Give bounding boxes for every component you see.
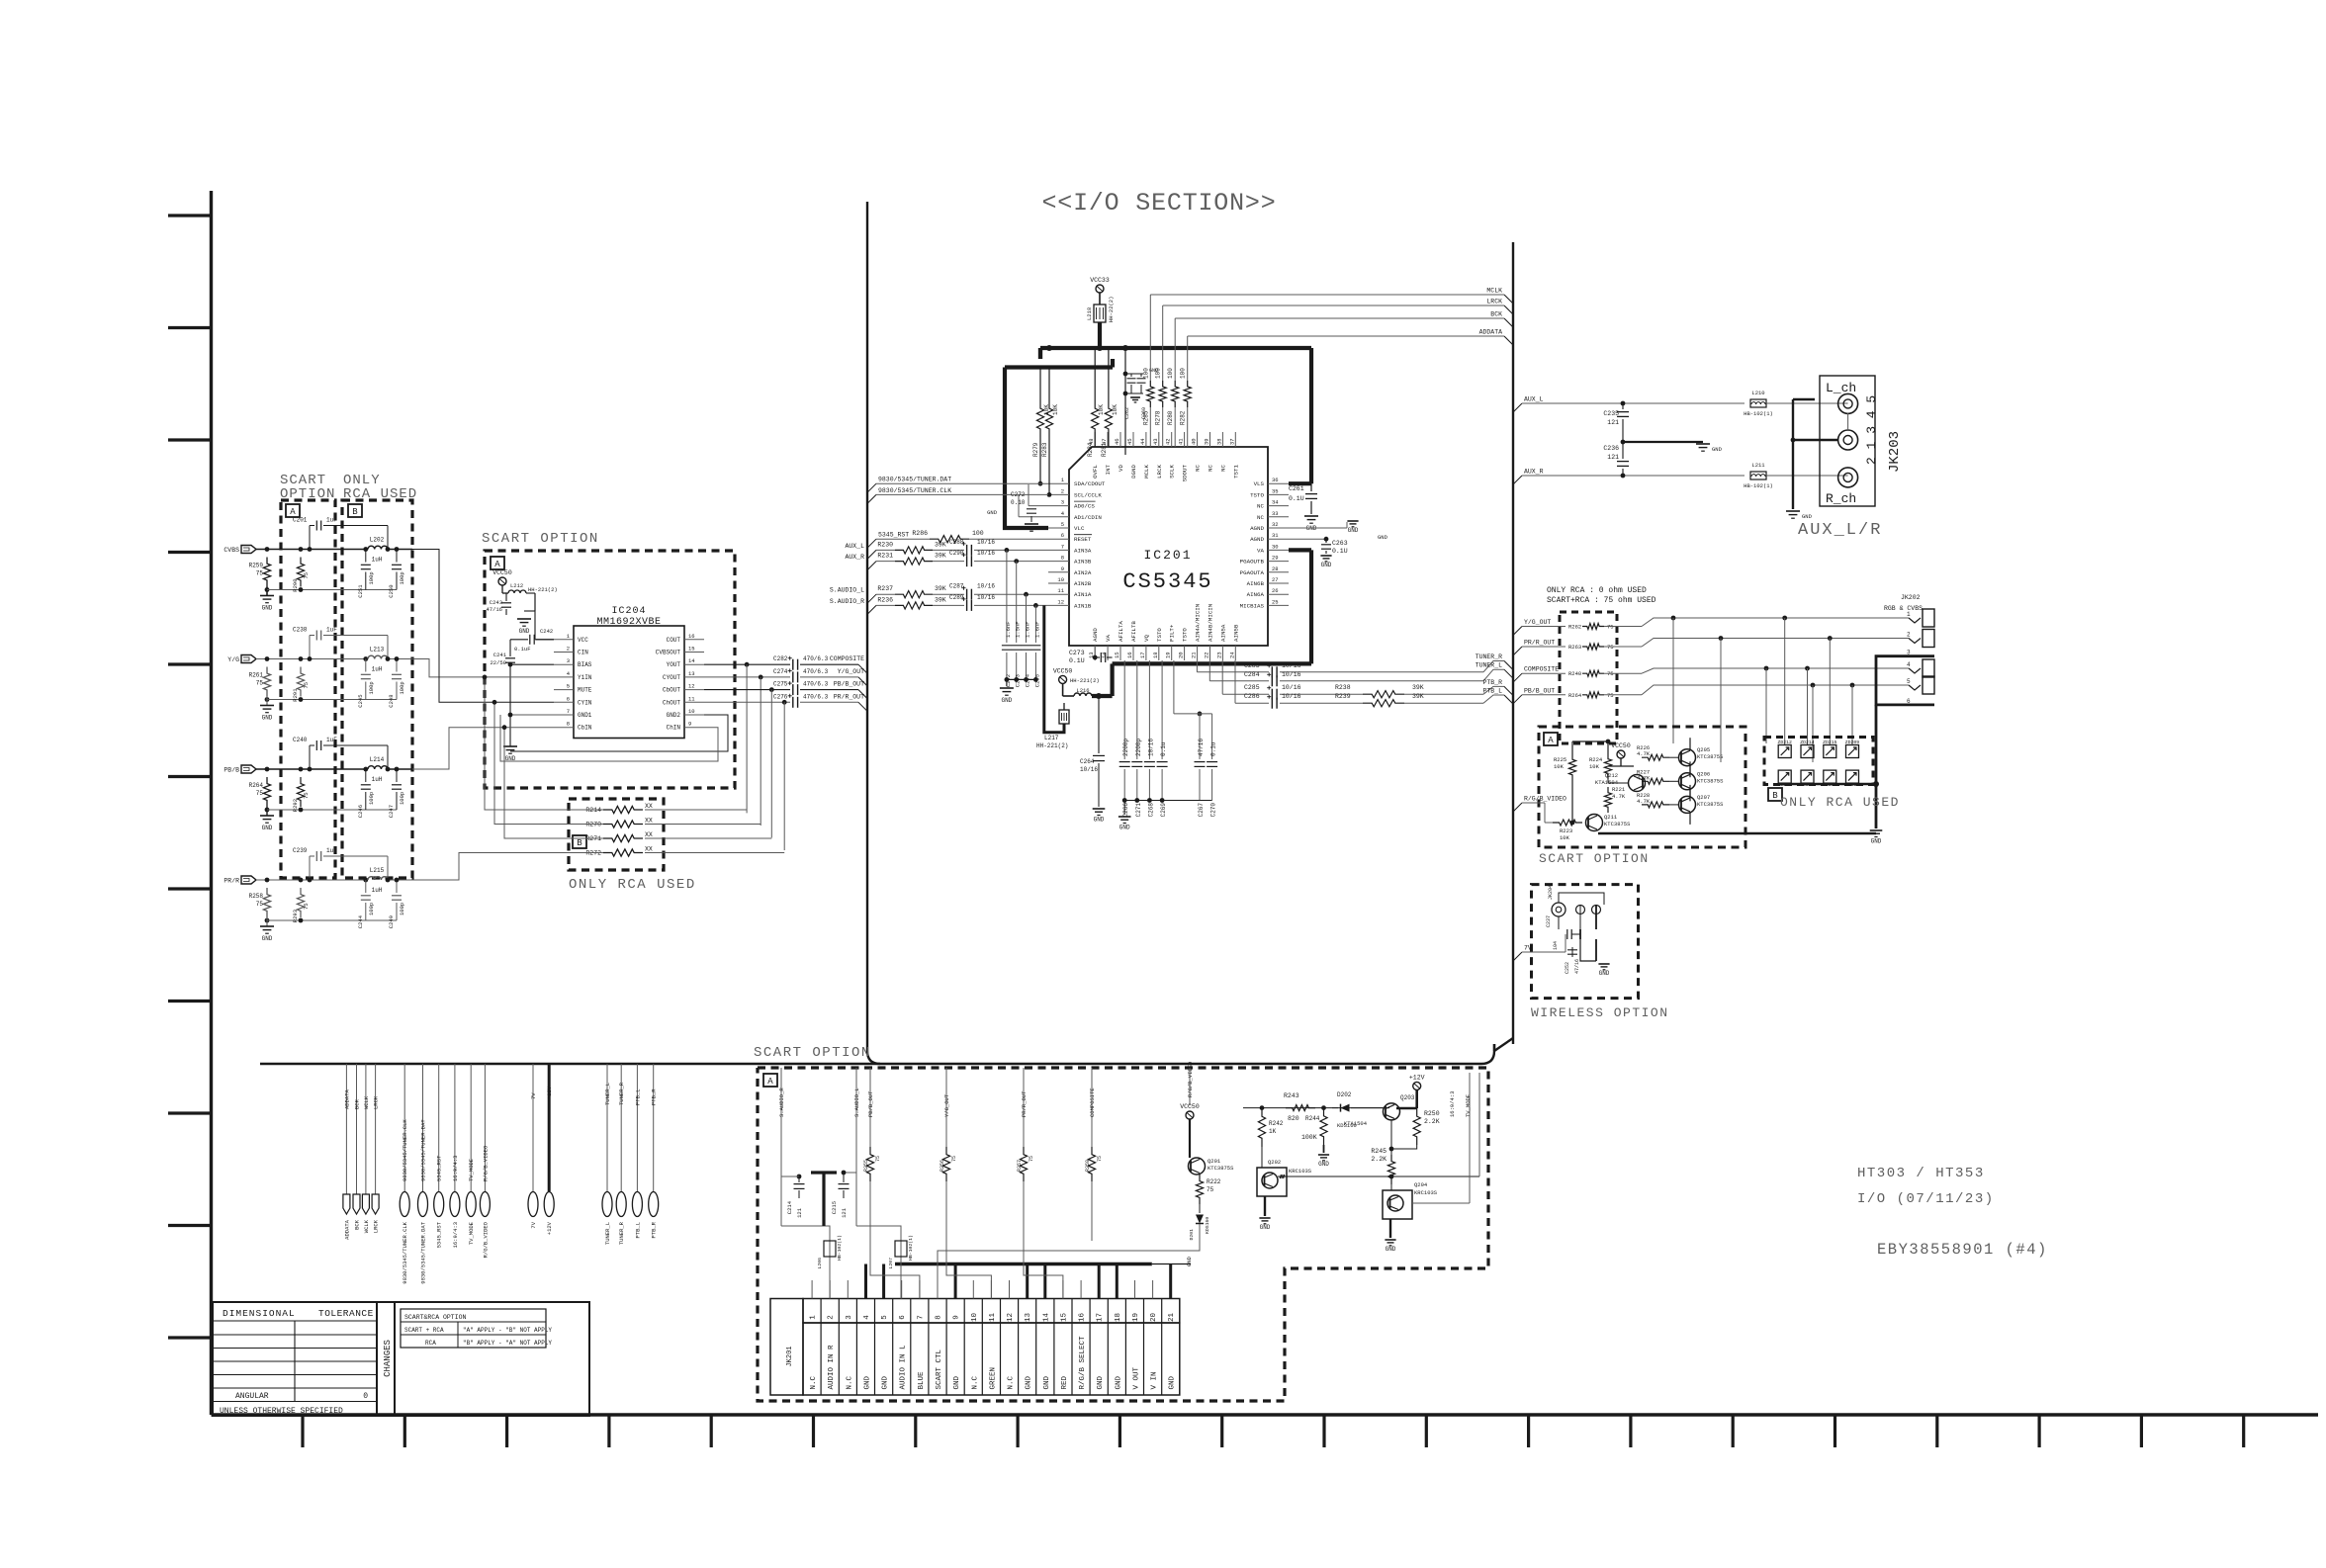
IC201 pin 17 VQ (bottom) xyxy=(1145,646,1147,660)
resistor R237 39K xyxy=(895,591,933,598)
svg-text:R286: R286 xyxy=(912,530,928,537)
svg-text:MCLK: MCLK xyxy=(1143,464,1150,478)
svg-text:10/16: 10/16 xyxy=(1282,684,1301,691)
svg-text:GND: GND xyxy=(864,1375,872,1389)
svg-text:47/16: 47/16 xyxy=(1574,959,1580,974)
pad WCLK xyxy=(365,1064,367,1194)
zener ZD210 xyxy=(1846,770,1859,783)
svg-text:1uF: 1uF xyxy=(326,517,337,524)
ground under R259 xyxy=(260,595,274,597)
svg-text:L215: L215 xyxy=(370,867,385,874)
wire L212 to pin1 xyxy=(534,593,536,640)
box tag A xyxy=(1544,733,1558,745)
wire R/G/B_VIDEO drop (bottom) xyxy=(1189,1068,1191,1105)
svg-text:C235: C235 xyxy=(1603,410,1619,417)
svg-text:121: 121 xyxy=(796,1207,803,1218)
svg-text:7: 7 xyxy=(917,1315,925,1320)
svg-text:PTB_L: PTB_L xyxy=(634,1222,641,1239)
svg-text:R290: R290 xyxy=(292,579,299,592)
capacitor C214 121 xyxy=(797,1175,802,1179)
ground under Q204 xyxy=(1389,1219,1391,1238)
svg-text:16: 16 xyxy=(1079,1313,1087,1323)
transistor Q204 KRC103S digital xyxy=(1383,1190,1412,1219)
connector JK201 table xyxy=(770,1299,803,1396)
svg-text:WCLK: WCLK xyxy=(363,1219,370,1233)
IC201 CS5345 body xyxy=(1069,447,1268,646)
svg-text:GND: GND xyxy=(953,1375,961,1389)
wire JK201 stub pin 1 xyxy=(811,1280,813,1299)
resistor R293 xyxy=(297,888,304,917)
svg-text:GND: GND xyxy=(1026,1375,1033,1389)
svg-text:RED: RED xyxy=(1061,1375,1069,1389)
svg-text:10/16: 10/16 xyxy=(977,550,995,557)
ground JK203 xyxy=(1786,510,1800,512)
wire R279 to pin1 row xyxy=(1038,481,1043,486)
svg-text:16: 16 xyxy=(688,633,695,640)
svg-text:7V: 7V xyxy=(1524,945,1532,952)
svg-text:1uH: 1uH xyxy=(372,887,383,894)
svg-text:39K: 39K xyxy=(1412,684,1424,691)
svg-text:RCA USED: RCA USED xyxy=(343,486,417,502)
svg-text:AUX_L/R: AUX_L/R xyxy=(1798,521,1882,540)
svg-text:10/16: 10/16 xyxy=(1080,766,1098,773)
svg-text:R259: R259 xyxy=(1085,1160,1091,1172)
IC201 pin 30 VA (right) xyxy=(1268,549,1289,551)
svg-text:R258: R258 xyxy=(249,893,264,900)
svg-text:R278: R278 xyxy=(1155,410,1162,425)
IC201 pin 27 AIN6B (right) xyxy=(1268,582,1289,584)
wire Y/G_OUT to JK202 xyxy=(1604,626,1642,628)
svg-text:L212: L212 xyxy=(510,582,523,589)
svg-text:Y/G_OUT: Y/G_OUT xyxy=(1524,619,1551,626)
pad PTB_L xyxy=(636,1064,638,1191)
svg-text:GND: GND xyxy=(519,628,530,635)
svg-text:10K: 10K xyxy=(1589,763,1600,770)
svg-text:R/G/B SELECT: R/G/B SELECT xyxy=(1079,1336,1087,1390)
transistor Q211 KTC3875S xyxy=(1586,815,1603,831)
svg-text:PTB_L: PTB_L xyxy=(634,1089,641,1105)
svg-text:3: 3 xyxy=(1061,499,1064,506)
svg-text:2200p: 2200p xyxy=(1135,739,1142,756)
svg-text:PGAOUTB: PGAOUTB xyxy=(1240,559,1265,566)
svg-text:D202: D202 xyxy=(1337,1091,1352,1098)
svg-text:AUX_R: AUX_R xyxy=(1524,469,1544,476)
svg-text:Q203: Q203 xyxy=(1400,1094,1415,1101)
IC201 pin 46 VD (top) xyxy=(1119,432,1121,447)
svg-text:15: 15 xyxy=(1114,652,1120,658)
svg-text:GND: GND xyxy=(1348,527,1359,534)
box tag A xyxy=(491,557,504,569)
svg-text:36: 36 xyxy=(1272,477,1279,483)
wire JK201 gnd stub pin 17 xyxy=(1098,1264,1101,1299)
wire thick right rail VLS/VA xyxy=(1309,348,1313,483)
IC204 pin 14 YOUT xyxy=(684,663,704,665)
dashed option box B (RCA resistors) xyxy=(569,799,664,870)
svg-text:NC: NC xyxy=(1257,514,1264,521)
svg-text:Q212: Q212 xyxy=(1605,772,1618,779)
svg-text:C293: C293 xyxy=(1015,674,1022,687)
svg-text:C240: C240 xyxy=(293,737,308,743)
svg-text:5: 5 xyxy=(1061,521,1064,528)
svg-text:C292: C292 xyxy=(1005,674,1012,687)
svg-text:L218: L218 xyxy=(1086,307,1093,320)
svg-text:AIN4A/MICIN: AIN4A/MICIN xyxy=(1195,603,1202,642)
capacitor C238 1uF bypass xyxy=(309,636,311,659)
svg-text:JK201: JK201 xyxy=(786,1346,794,1366)
svg-text:0.10: 0.10 xyxy=(1011,499,1026,506)
pad 9830/5345/TUNER.DAT xyxy=(422,1064,424,1191)
svg-text:GND1: GND1 xyxy=(578,712,592,719)
capacitor C236 121 xyxy=(1621,474,1626,479)
capacitor C251 100p xyxy=(365,550,367,563)
svg-text:20: 20 xyxy=(1150,1313,1158,1323)
svg-text:SCL/CCLK: SCL/CCLK xyxy=(1074,491,1102,498)
svg-text:R262: R262 xyxy=(1568,624,1581,631)
svg-text:R264: R264 xyxy=(249,782,264,789)
svg-text:42: 42 xyxy=(1165,438,1172,445)
svg-text:47/16: 47/16 xyxy=(486,606,502,613)
capacitor C271 2200p xyxy=(1136,660,1138,759)
IC201 pin 40 NC (top) xyxy=(1197,432,1199,447)
wire JK202 pin3/pin6 ground xyxy=(1876,656,1934,705)
svg-text:39K: 39K xyxy=(1412,693,1424,700)
svg-text:AGND: AGND xyxy=(1092,628,1099,642)
wire JK201 stub pin 6 xyxy=(901,1280,903,1299)
svg-text:18: 18 xyxy=(1152,652,1159,658)
wire thick plate junction xyxy=(811,1171,837,1174)
svg-text:SCART + RCA: SCART + RCA xyxy=(404,1327,444,1334)
IC204 pin 1 VCC xyxy=(554,639,574,641)
svg-text:GREEN: GREEN xyxy=(989,1367,997,1390)
capacitor C268 10/16 xyxy=(1148,660,1150,759)
resistor R231 39K xyxy=(895,558,933,565)
svg-text:HB-102(1): HB-102(1) xyxy=(1744,410,1773,417)
svg-text:33: 33 xyxy=(1272,510,1279,517)
svg-text:15: 15 xyxy=(688,646,695,653)
wire JK201 gnd stub pin 18 xyxy=(1116,1264,1118,1299)
ground under C243 xyxy=(517,618,531,620)
IC201 pin 18 TSTO (bottom) xyxy=(1158,646,1160,660)
capacitor C249 100p xyxy=(396,880,398,893)
svg-text:R264: R264 xyxy=(1568,692,1582,699)
resistor R239 39K xyxy=(1363,700,1404,707)
resistor R245 2.2K xyxy=(1387,1155,1394,1184)
svg-text:1.6nF: 1.6nF xyxy=(1033,621,1040,638)
wire CVBS row xyxy=(256,549,366,551)
svg-text:10/16: 10/16 xyxy=(977,583,995,590)
IC201 pin 9 AIN2A (left) xyxy=(1048,571,1069,573)
svg-text:PTB_L: PTB_L xyxy=(1482,688,1502,695)
svg-text:75: 75 xyxy=(303,903,310,910)
svg-text:ADDATA: ADDATA xyxy=(343,1219,350,1240)
svg-text:C269: C269 xyxy=(1160,803,1167,818)
resistor R284 10K xyxy=(1094,348,1096,400)
svg-text:C214: C214 xyxy=(786,1200,793,1214)
svg-text:3: 3 xyxy=(567,657,570,664)
IC204 pin 5 MUTE xyxy=(554,689,574,691)
svg-text:100p: 100p xyxy=(368,681,375,694)
wire PR/R_OUT output row xyxy=(704,701,790,703)
resistor R244 100K xyxy=(1320,1108,1327,1145)
svg-text:HB-102(1): HB-102(1) xyxy=(837,1235,843,1261)
svg-text:R231: R231 xyxy=(877,553,893,560)
svg-text:37: 37 xyxy=(1228,438,1235,445)
transistor Q201 KTC3875S xyxy=(1189,1158,1206,1175)
wire PR/R_OUT drop (bottom) xyxy=(1023,1068,1025,1147)
dashed option box B (zeners) xyxy=(1764,738,1873,785)
capacitor C261 0.1U xyxy=(1310,483,1312,491)
IC201 pin 14 VA (bottom) xyxy=(1107,646,1109,660)
svg-text:12: 12 xyxy=(688,683,695,690)
svg-text:16:9/4:3: 16:9/4:3 xyxy=(1449,1091,1456,1117)
wire wireless gnd xyxy=(1580,939,1596,961)
svg-text:C262: C262 xyxy=(1124,407,1130,419)
svg-text:NC: NC xyxy=(1219,464,1226,471)
inductor L215 1uH xyxy=(363,878,368,883)
ground under C264 xyxy=(1093,808,1106,810)
IC201 pin 44 MCLK (top) xyxy=(1145,432,1147,447)
svg-text:KTC3875S: KTC3875S xyxy=(1604,821,1631,828)
svg-text:KRC103S: KRC103S xyxy=(1414,1189,1438,1196)
svg-text:9830/5345/TUNER.CLK: 9830/5345/TUNER.CLK xyxy=(878,487,951,494)
svg-text:13: 13 xyxy=(1025,1313,1032,1323)
svg-text:R279: R279 xyxy=(1032,442,1039,457)
zener ZD218 xyxy=(1824,770,1836,783)
svg-text:TUNER_L: TUNER_L xyxy=(604,1083,611,1105)
svg-text:29: 29 xyxy=(1272,555,1279,562)
capacitor C243 47/16 xyxy=(505,593,507,601)
transistor Q205 KTC3875S xyxy=(1679,749,1696,766)
svg-text:28: 28 xyxy=(1272,566,1279,572)
svg-text:KRC103S: KRC103S xyxy=(1289,1168,1312,1175)
pad ADDATA xyxy=(345,1064,347,1194)
svg-text:10/16: 10/16 xyxy=(977,594,995,601)
svg-text:PTB_R: PTB_R xyxy=(651,1221,658,1238)
svg-text:PR/R_OUT: PR/R_OUT xyxy=(834,693,864,700)
svg-text:5345_RST: 5345_RST xyxy=(878,532,909,539)
svg-text:47/16: 47/16 xyxy=(1198,739,1205,756)
svg-text:C267: C267 xyxy=(1198,803,1205,818)
connector JK203 jack L xyxy=(1838,393,1858,413)
capacitor C248 100p xyxy=(396,659,398,672)
box tag B xyxy=(1768,788,1782,801)
svg-text:75: 75 xyxy=(256,790,264,797)
svg-text:VCC: VCC xyxy=(578,637,588,644)
wire VCC33 to bus xyxy=(1098,322,1102,348)
svg-text:100p: 100p xyxy=(368,571,375,584)
IC201 pin 39 NC (top) xyxy=(1209,432,1211,447)
svg-text:R/G/B_VIDEO: R/G/B_VIDEO xyxy=(482,1221,489,1258)
svg-text:39K: 39K xyxy=(935,541,946,548)
ground under Q202 xyxy=(1264,1196,1266,1216)
svg-text:UNLESS OTHERWISE SPECIFIED: UNLESS OTHERWISE SPECIFIED xyxy=(220,1407,343,1416)
transistor Q203 KTA1504 xyxy=(1384,1103,1400,1120)
wire lower rail Y/G row xyxy=(267,699,397,701)
svg-text:GND2: GND2 xyxy=(667,712,681,719)
svg-text:AIN1A: AIN1A xyxy=(1074,591,1092,598)
IC204 pin 8 CbIN xyxy=(554,727,574,729)
IC201 pin 20 TSTO (bottom) xyxy=(1184,646,1186,660)
inductor L217 HH-221(2) xyxy=(1042,605,1045,710)
svg-text:9830/5345/TUNER.DAT: 9830/5345/TUNER.DAT xyxy=(420,1221,427,1283)
svg-text:75: 75 xyxy=(256,901,264,908)
capacitor C201 1uF bypass xyxy=(309,526,311,550)
svg-text:4.7K: 4.7K xyxy=(1612,793,1626,800)
svg-text:MICBIAS: MICBIAS xyxy=(1240,602,1265,609)
capacitor C270 0.1u xyxy=(1211,714,1213,759)
svg-text:BCK: BCK xyxy=(354,1219,361,1230)
svg-text:5: 5 xyxy=(1907,678,1911,685)
svg-text:100p: 100p xyxy=(368,792,375,805)
svg-text:38: 38 xyxy=(1215,438,1222,445)
svg-text:MM1692XVBE: MM1692XVBE xyxy=(596,617,661,628)
svg-text:11: 11 xyxy=(688,695,695,702)
wire JK201 gnd stub pin 9 xyxy=(954,1264,957,1299)
capacitor C282 470/6.3 xyxy=(792,659,794,670)
capacitor C285 10/16 xyxy=(1271,689,1273,700)
IC201 pin 21 AIN4A/MICIN (bottom) xyxy=(1197,646,1199,660)
svg-text:12: 12 xyxy=(1057,598,1064,605)
capacitor C286 10/16 xyxy=(1271,698,1273,709)
svg-text:TUNER_L: TUNER_L xyxy=(1476,662,1502,669)
svg-text:470/6.3: 470/6.3 xyxy=(803,668,829,675)
svg-text:CS5345: CS5345 xyxy=(1122,569,1212,594)
svg-text:6: 6 xyxy=(899,1315,907,1320)
svg-text:17: 17 xyxy=(1139,652,1146,658)
svg-text:BCK: BCK xyxy=(354,1098,361,1109)
svg-text:GND: GND xyxy=(882,1375,890,1389)
svg-text:<<I/O SECTION>>: <<I/O SECTION>> xyxy=(1041,189,1276,218)
IC201 pin 10 AIN2B (left) xyxy=(1048,582,1069,584)
svg-text:75: 75 xyxy=(1029,1156,1034,1162)
capacitor C287 10/16 xyxy=(966,589,968,600)
pad TUNER_R xyxy=(620,1064,622,1191)
svg-text:121: 121 xyxy=(1607,419,1619,426)
svg-text:10/16: 10/16 xyxy=(1282,671,1301,678)
inductor L210 HB-102(1) xyxy=(1750,399,1766,407)
inductor L213 1uH xyxy=(363,656,368,661)
flag 7V (wireless) xyxy=(1513,952,1522,961)
svg-text:C251: C251 xyxy=(357,584,364,598)
connector JK203 body xyxy=(1820,376,1875,506)
svg-text:S.AUDIO_L: S.AUDIO_L xyxy=(830,587,864,594)
svg-text:GND: GND xyxy=(1043,1375,1051,1389)
wire PB/B row xyxy=(256,768,366,770)
svg-text:GND: GND xyxy=(1599,970,1610,977)
svg-text:AIN5A: AIN5A xyxy=(1219,624,1226,642)
bottom ruler ticks xyxy=(301,1415,304,1447)
svg-text:C238: C238 xyxy=(293,627,308,634)
wire D201 to SCART CTL pin xyxy=(938,1224,1200,1299)
svg-text:GND: GND xyxy=(1001,697,1012,704)
svg-text:6: 6 xyxy=(567,695,570,702)
wire ADDATA clock line xyxy=(1188,335,1504,337)
svg-text:CIN: CIN xyxy=(578,650,588,656)
svg-text:C261: C261 xyxy=(1289,485,1304,492)
svg-text:AD0/CS: AD0/CS xyxy=(1074,503,1095,510)
capacitor C288 10/16 xyxy=(966,545,968,556)
svg-text:C246: C246 xyxy=(357,805,364,818)
wire lower rail PR/R row xyxy=(267,919,397,921)
wire COMPOSITE drop (bottom) xyxy=(1091,1068,1093,1147)
svg-text:GND: GND xyxy=(262,935,273,942)
svg-text:GND: GND xyxy=(1115,1375,1122,1389)
svg-text:GND: GND xyxy=(1119,825,1130,831)
svg-text:1.6nF: 1.6nF xyxy=(1025,621,1031,638)
svg-text:GND: GND xyxy=(987,509,998,516)
svg-text:9830/5345/TUNER.DAT: 9830/5345/TUNER.DAT xyxy=(878,477,951,483)
wire Y/G_OUT bypass drop xyxy=(760,677,761,826)
svg-text:KTC3875S: KTC3875S xyxy=(1697,777,1724,784)
svg-text:75: 75 xyxy=(1097,1156,1103,1162)
ground decoupling rail xyxy=(1118,816,1131,818)
svg-text:75: 75 xyxy=(303,572,310,579)
IC201 pin 32 AGND (right) xyxy=(1268,527,1289,529)
svg-text:14: 14 xyxy=(1042,1313,1050,1323)
svg-text:R291: R291 xyxy=(292,688,299,702)
svg-text:C247: C247 xyxy=(388,805,395,818)
svg-text:R/G/B_VIDEO: R/G/B_VIDEO xyxy=(1524,796,1566,803)
IC201 pin 6 RESET (left) xyxy=(1048,538,1069,540)
capacitor C266 2200p xyxy=(1123,660,1125,759)
wire section boundary horizontal xyxy=(260,1063,880,1065)
svg-text:AIN5B: AIN5B xyxy=(1232,624,1239,642)
svg-text:GND: GND xyxy=(1378,534,1388,541)
svg-text:R240: R240 xyxy=(1568,670,1581,677)
wire LRCK clock line xyxy=(1163,305,1504,306)
svg-text:R/G/B_VIDEO: R/G/B_VIDEO xyxy=(1187,1061,1194,1097)
svg-text:ADDATA: ADDATA xyxy=(343,1089,350,1109)
svg-text:39K: 39K xyxy=(935,553,946,560)
svg-text:R285: R285 xyxy=(1142,410,1149,425)
svg-text:ADDATA: ADDATA xyxy=(1479,329,1503,336)
wire driver emitter bus thick xyxy=(1598,832,1876,835)
connector JK203 jack R xyxy=(1838,468,1858,487)
svg-text:AIN2A: AIN2A xyxy=(1074,569,1092,576)
svg-text:GND: GND xyxy=(1871,838,1882,845)
box tag A xyxy=(286,504,300,517)
flag AUX_R xyxy=(1513,476,1522,484)
svg-text:75: 75 xyxy=(951,1156,957,1162)
svg-text:TSTO: TSTO xyxy=(1182,628,1189,642)
pad PTB_R xyxy=(653,1064,655,1191)
svg-text:39K: 39K xyxy=(935,596,946,603)
resistor R242 1K xyxy=(1258,1108,1265,1147)
svg-text:470/6.3: 470/6.3 xyxy=(803,655,829,662)
capacitor C276 470/6.3 xyxy=(792,697,794,708)
wire JK201 stub pin 19 xyxy=(1134,1280,1136,1299)
svg-text:AUX_R: AUX_R xyxy=(845,554,864,561)
wire JK201 stub pin 20 xyxy=(1152,1280,1154,1299)
wire PR/R_OUT to JK202 xyxy=(1604,646,1642,648)
svg-text:Q204: Q204 xyxy=(1414,1181,1428,1188)
wire JK201 gnd stub pin 21 xyxy=(1169,1264,1172,1299)
resistor R257 75 xyxy=(1020,1147,1027,1181)
resistor R222 75 xyxy=(1196,1175,1203,1204)
svg-text:100p: 100p xyxy=(368,903,375,915)
svg-text:AUX_L: AUX_L xyxy=(1524,396,1544,403)
svg-text:CVBSOUT: CVBSOUT xyxy=(656,650,681,656)
IC201 pin 43 LRCK (top) xyxy=(1158,432,1160,447)
svg-text:R_ch: R_ch xyxy=(1826,491,1856,506)
svg-text:Y/G_OUT: Y/G_OUT xyxy=(943,1093,950,1117)
ground under R261 xyxy=(260,705,274,707)
wire bypass to output row xyxy=(645,852,784,854)
IC201 pin 4 AD1/CDIN (left) xyxy=(1048,516,1069,518)
svg-text:A: A xyxy=(290,507,296,517)
IC201 pin 24 AIN5B (bottom) xyxy=(1234,646,1236,660)
svg-text:Q206: Q206 xyxy=(1697,770,1710,777)
